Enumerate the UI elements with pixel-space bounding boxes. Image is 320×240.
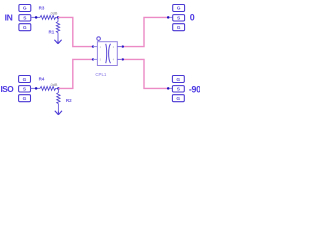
resistor R3 (zigzag)	[40, 15, 57, 19]
port 0 pad G (top)	[173, 5, 185, 12]
svg-text:R3: R3	[39, 5, 45, 10]
svg-text:0: 0	[190, 13, 195, 23]
svg-text:0dB: 0dB	[51, 83, 58, 87]
ground (below R2, arrow)	[55, 111, 62, 115]
stub into 0 port	[169, 16, 172, 18]
port 0 pad G (bottom)	[173, 24, 185, 31]
coupler CPL1 (body box)	[97, 42, 117, 66]
port ISO pad S (middle)	[19, 86, 31, 92]
junction dot at 0 port	[167, 16, 170, 19]
node junction ISO	[57, 87, 60, 90]
port 0 pad S (middle)	[173, 15, 185, 21]
resistor R4 (zigzag)	[40, 86, 57, 90]
port IN pad G (bottom)	[19, 24, 31, 31]
wire net ISO node to coupler port 3 (pink)	[58, 59, 92, 88]
wire coupler port 4 to OUT -90 port (pink)	[121, 59, 170, 88]
wire IN pad to R3	[31, 16, 40, 18]
svg-text:IN: IN	[5, 13, 13, 23]
wire net IN node to coupler port 1 (pink)	[58, 17, 93, 46]
svg-text:G: G	[23, 6, 27, 12]
resistor R1 (zigzag)	[56, 22, 59, 33]
port IN pad G (top)	[19, 5, 31, 12]
junction dot on ISO wire	[35, 87, 38, 90]
junction dot at coupler port 3	[92, 58, 94, 60]
port IN pad S (middle)	[19, 15, 31, 21]
junction dot near coupler port 4	[122, 58, 124, 60]
coupler CPL1 (port stubs)	[93, 47, 121, 60]
port -90 pad G (bottom)	[172, 95, 184, 102]
svg-text:G: G	[23, 77, 27, 83]
svg-text:R1: R1	[49, 29, 55, 34]
junction dot on IN wire	[35, 16, 38, 19]
port ISO pad G (bottom)	[19, 95, 31, 102]
port -90 pad G (top)	[172, 76, 184, 83]
svg-text:-90: -90	[189, 84, 200, 94]
svg-text:G: G	[23, 96, 27, 102]
coupler CPL1 pin numbers	[100, 46, 115, 62]
junction dot at -90 port	[167, 87, 170, 90]
port -90 pad S (middle)	[172, 86, 184, 92]
junction dot at coupler port 1	[92, 45, 94, 47]
ground (below R1, arrow)	[54, 40, 61, 44]
svg-text:G: G	[177, 6, 181, 12]
coupler CPL1 (orientation circle)	[97, 37, 101, 41]
wire ISO pad to R4	[31, 87, 41, 89]
svg-text:R4: R4	[39, 76, 45, 81]
stub into -90 port	[169, 87, 172, 89]
wire coupler port 2 to OUT 0 port (pink)	[121, 17, 170, 46]
svg-text:ISO: ISO	[1, 84, 15, 94]
svg-text:G: G	[23, 25, 27, 31]
resistor R2 (zigzag)	[57, 93, 60, 104]
resistor R1 (wire from node)	[57, 17, 59, 21]
svg-text:CPL1: CPL1	[95, 72, 107, 77]
node junction IN	[57, 16, 60, 19]
svg-text:R2: R2	[66, 98, 72, 103]
svg-text:G: G	[176, 77, 180, 83]
svg-text:0dB: 0dB	[51, 12, 58, 16]
port ISO pad G (top)	[19, 76, 31, 83]
svg-text:G: G	[176, 96, 180, 102]
coupler CPL1 (coupled-line curves)	[106, 44, 111, 63]
wire R2 to ground	[57, 104, 59, 112]
resistor R2 (wire from node)	[57, 88, 59, 92]
junction dot near coupler port 2	[122, 45, 124, 47]
svg-text:G: G	[177, 25, 181, 31]
wire R1 to ground	[57, 33, 59, 41]
